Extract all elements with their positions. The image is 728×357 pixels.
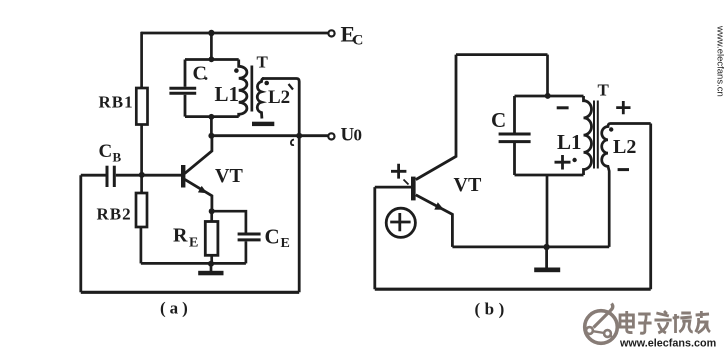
烧	[673, 313, 693, 333]
LC tank box (a): top, left with capacitor C, bottom	[185, 58, 239, 61]
svg-text:RB2: RB2	[97, 205, 132, 224]
svg-text:E: E	[189, 236, 198, 251]
wire: top wire down to tank (b)	[546, 55, 549, 96]
wire: emitter to RE	[210, 211, 213, 221]
svg-text:T: T	[257, 53, 269, 72]
node: top rail junction dot	[208, 30, 214, 36]
wire: emitter bottom wire (b)	[452, 245, 609, 248]
wire: CE bottom to bus	[245, 241, 248, 263]
plus sign near base (b)	[391, 164, 406, 179]
ground bar under L2 (a)	[252, 122, 274, 126]
svg-text:www.elecfans.com: www.elecfans.com	[619, 338, 716, 350]
svg-text:C: C	[99, 141, 113, 162]
wire: left column from rail to RB1	[140, 32, 143, 88]
resistor RB1	[136, 88, 147, 125]
node: tank top dot (b)	[545, 93, 551, 99]
node: collector rail dot	[208, 133, 214, 139]
node: emitter junction dot	[209, 208, 215, 214]
wire: output rail U0	[211, 134, 328, 137]
wire: tank bottom to ground node (b)	[546, 175, 549, 247]
node: ground junction dot (b)	[543, 244, 549, 250]
ground (a)	[210, 263, 213, 271]
wire: base node to RB2	[140, 175, 143, 193]
node: base junction dot	[139, 172, 145, 178]
inductor L1 (b) coil on tank right side	[584, 96, 592, 175]
node: RE bottom dot	[208, 261, 214, 267]
transistor VT (a) collector lead	[185, 136, 212, 174]
transistor VT (a) emitter lead	[185, 179, 212, 211]
L1 phase dot (b)	[572, 158, 576, 162]
wire: top supply rail (a)	[141, 32, 328, 35]
L1 phase dot (a)	[234, 68, 239, 73]
capacitor CE	[238, 233, 261, 236]
wire: outer feedback loop left side	[79, 175, 82, 292]
svg-text:L2: L2	[268, 87, 290, 108]
source circle (b)	[386, 208, 415, 237]
wire: rail to tank top	[210, 33, 213, 60]
wire: outer feedback loop right side	[298, 136, 301, 293]
svg-text:C: C	[353, 33, 364, 49]
inductor L1 (a) coil on tank right side	[239, 60, 247, 117]
transformer T core bars (b)	[593, 101, 595, 169]
wire: RB1 to base node	[140, 125, 143, 176]
wire: outer loop right (b)	[649, 124, 652, 290]
svg-text:U: U	[341, 125, 355, 146]
wire: tank bottom to collector rail	[210, 117, 213, 136]
transistor VT (a) emitter arrow	[198, 186, 207, 193]
svg-text:VT: VT	[454, 174, 482, 196]
tick mark c below rail	[291, 140, 294, 146]
capacitor C (a tank)	[169, 87, 196, 90]
发	[654, 311, 671, 333]
transistor VT (a) base bar	[181, 165, 185, 188]
svg-text:T: T	[598, 81, 610, 100]
tick below plus (b)	[404, 180, 409, 185]
terminal U0 circle	[328, 133, 334, 139]
wire: CB left lead	[81, 174, 106, 177]
wire: top wire (b)	[456, 53, 548, 56]
capacitor CB	[106, 166, 109, 187]
transistor VT (b) emitter lead	[416, 195, 453, 247]
wire: outer feedback loop bottom	[81, 291, 299, 294]
inductor L2 (b): coil and leads	[602, 124, 651, 247]
svg-text:0: 0	[354, 126, 363, 145]
transformer T core bar (a)	[251, 66, 254, 112]
tick mark near L2 (a)	[289, 84, 294, 90]
LC tank box (b): top, left with capacitor C, bottom	[515, 95, 584, 98]
svg-text:C: C	[265, 225, 280, 249]
node: tank bottom dot	[209, 114, 215, 120]
友	[696, 311, 710, 333]
plus sign in tank bottom (b)	[555, 155, 571, 170]
transistor VT (b) base bar	[411, 177, 416, 201]
wire: emitter node to CE branch	[212, 211, 246, 232]
svg-text:R: R	[173, 225, 188, 247]
watermark text 电子发烧友 (stylized strokes)	[620, 311, 710, 333]
svg-text:C: C	[193, 63, 207, 85]
svg-text:www.elecfans.cn: www.elecfans.cn	[715, 25, 726, 97]
wire: RB2 to bottom bus	[140, 227, 143, 263]
电	[620, 311, 633, 333]
resistor RB2	[136, 193, 147, 227]
transistor VT (b) emitter arrow	[434, 202, 444, 210]
resistor RE	[205, 222, 218, 256]
plus inside source (b)	[390, 213, 410, 231]
ground (b)	[545, 247, 548, 268]
svg-text:RB1: RB1	[99, 93, 134, 112]
node: L2/feedback junction on U0 rail	[296, 133, 302, 139]
wire: RE to bus	[210, 255, 213, 263]
minus sign in tank top (b)	[557, 106, 569, 109]
watermark logo disk bottom right	[585, 304, 618, 344]
wire: outer loop bottom (b)	[375, 288, 651, 291]
svg-text:L2: L2	[613, 136, 636, 158]
svg-text:C: C	[491, 108, 506, 132]
子	[638, 314, 651, 333]
wire: CB right lead to base	[116, 174, 181, 177]
L2 phase dot (b)	[609, 127, 613, 131]
capacitor C (b)	[499, 133, 531, 136]
svg-text:VT: VT	[215, 165, 243, 187]
wire: outer loop left (b)	[373, 187, 376, 289]
minus sign below L2 (b)	[618, 168, 629, 171]
svg-text:(b): (b)	[475, 300, 509, 319]
wire: base lead (b)	[375, 186, 411, 189]
svg-text:(a): (a)	[160, 299, 192, 318]
svg-text:L1: L1	[215, 82, 240, 106]
wire: collector lead (b)	[416, 55, 456, 180]
inductor L2 (a): top side, coil, right side	[262, 79, 299, 136]
wire: bottom emitter bus	[141, 262, 246, 265]
plus sign above L2 (b)	[616, 101, 630, 114]
svg-text:L1: L1	[557, 130, 582, 154]
L2 phase dot (a)	[264, 81, 269, 86]
svg-text:E: E	[281, 236, 290, 251]
node: tank top dot	[209, 56, 215, 62]
terminal EC circle	[328, 30, 334, 36]
svg-text:B: B	[113, 150, 122, 165]
